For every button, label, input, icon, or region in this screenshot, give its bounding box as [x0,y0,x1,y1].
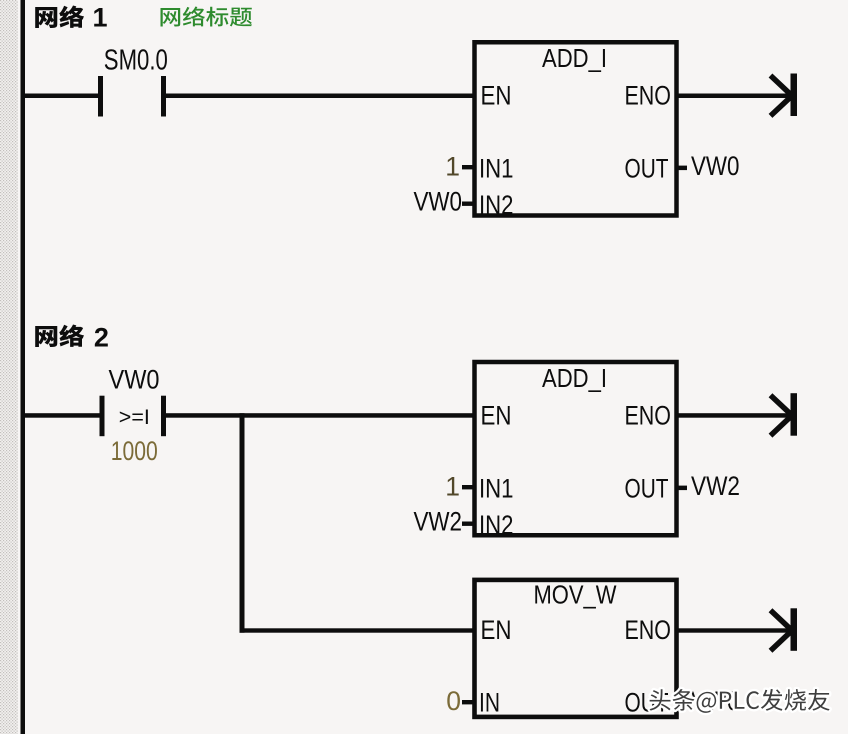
stub U3 IN [462,700,475,704]
wire U2 ENO to arrow [677,413,793,418]
svg-text:IN2: IN2 [479,510,514,540]
wire rail to contact N1 [25,94,98,99]
wire branch junction down [240,413,245,633]
label 网络 1 (network 1 header) [35,5,84,28]
svg-text:OUT: OUT [625,153,669,183]
label 网络标题 (green network title) [161,7,252,27]
svg-text:IN1: IN1 [479,473,514,503]
svg-text:VW0: VW0 [691,151,740,181]
svg-text:OUT: OUT [625,473,669,503]
wire rail to contact N2 [25,413,100,418]
svg-text:1: 1 [92,2,107,32]
contact SM0.0 right bar [161,76,166,117]
stub U2 OUT [677,486,687,491]
svg-text:EN: EN [481,80,512,110]
wire U3 ENO to arrow [677,628,793,632]
svg-text:1: 1 [445,472,460,502]
stub U1 IN1 [462,165,475,169]
contact SM0.0 left bar [98,76,103,117]
svg-text:IN: IN [479,688,500,718]
svg-text:1: 1 [445,152,460,182]
wire contact to ADD_I box 1 EN [166,94,474,99]
block MOV_W U3 box [475,580,677,717]
arrow continuation N1 [771,74,798,117]
arrow continuation N3 [771,608,798,651]
stub U2 IN2 [462,522,475,526]
svg-text:EN: EN [481,400,512,430]
stub U3 OUT [677,700,687,705]
left scrollbar dither track [0,0,18,734]
block ADD_I U1 box [475,42,677,215]
arrow continuation N2 [771,393,798,436]
svg-text:VW2: VW2 [691,471,740,501]
svg-text:MOV_W: MOV_W [534,582,617,610]
stub U1 IN2 [462,202,475,206]
wire branch to MOV_W box EN [240,628,475,632]
watermark 头条@PLC发烧友 [650,689,830,713]
compare contact left bar [100,396,105,437]
wire U1 ENO to arrow [677,94,793,99]
svg-text:ENO: ENO [625,400,672,430]
label 网络 2 (network 2 header) [35,324,84,347]
svg-text:VW2: VW2 [414,507,463,537]
svg-text:IN1: IN1 [479,153,514,183]
svg-text:0: 0 [446,686,461,716]
svg-text:>=I: >=I [119,406,150,429]
svg-text:IN2: IN2 [479,190,514,220]
svg-text:EN: EN [481,615,512,645]
svg-text:ENO: ENO [625,615,672,645]
wire contact to ADD_I box 2 EN [166,413,474,418]
svg-text:1000: 1000 [111,436,158,466]
svg-text:ADD_I: ADD_I [542,365,607,393]
left power rail [21,0,26,734]
stub U1 OUT [677,166,687,171]
svg-text:SM0.0: SM0.0 [104,45,168,77]
compare contact right bar [161,396,166,437]
block ADD_I U2 box [475,362,677,535]
svg-text:VW0: VW0 [109,364,160,394]
svg-text:2: 2 [94,323,109,353]
stub U2 IN1 [462,485,475,489]
svg-text:ADD_I: ADD_I [542,45,607,73]
svg-text:VW0: VW0 [414,187,463,217]
svg-text:ENO: ENO [625,80,672,110]
